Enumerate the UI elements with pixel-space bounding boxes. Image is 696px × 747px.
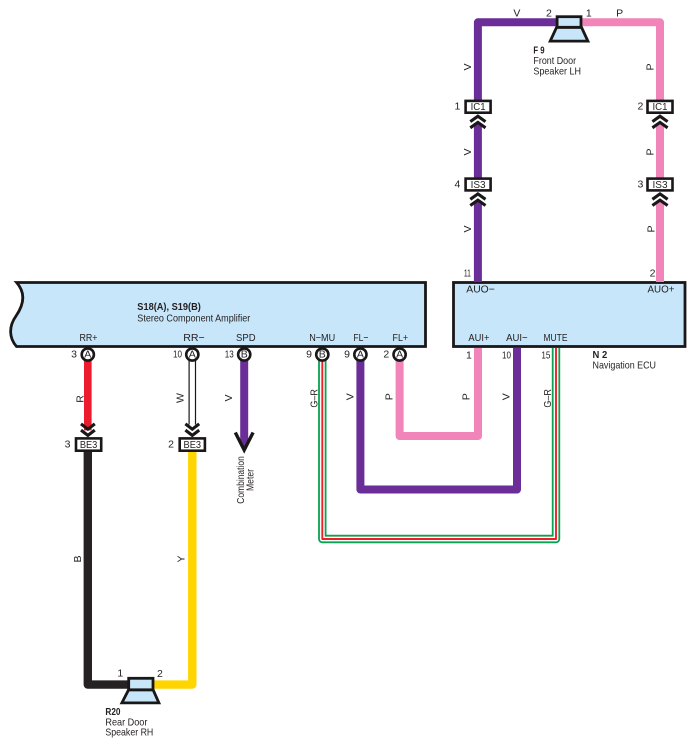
svg-text:9: 9 [344,349,350,361]
wire label P top right column above IC1 [645,63,657,70]
pin 10 circle A on RR- [173,348,198,360]
chevron above BE3 right [185,424,199,436]
svg-text:A: A [357,349,364,361]
wire label G-R on N-MU wire [308,389,320,408]
pin 9 circle A on FL- [344,348,366,360]
svg-text:A: A [84,349,91,361]
speaker R20 Rear Door Speaker RH [122,678,159,703]
svg-text:P: P [645,63,657,70]
svg-text:3: 3 [65,438,71,450]
svg-text:V: V [501,393,513,400]
svg-text:S18(A), S19(B): S18(A), S19(B) [137,301,201,313]
wire label V upper left column [462,148,474,155]
svg-text:IS3: IS3 [471,179,486,191]
wire label P lower right column [646,225,658,232]
label Combination Meter (rotated) [235,456,257,504]
svg-text:2: 2 [637,101,643,113]
wire label P on AUI+ wire [461,393,473,400]
wire label P on FL+ wire [384,393,396,400]
svg-text:1: 1 [466,350,472,362]
svg-text:4: 4 [454,178,460,190]
svg-text:FL+: FL+ [393,332,409,344]
wire P from IS3 to Navigation ECU pin 2 AUO+ [656,201,664,282]
svg-text:10: 10 [502,350,511,362]
svg-text:10: 10 [173,349,182,361]
component N 2 Navigation ECU box [454,283,686,347]
connector IC1 right pin 2 [637,101,672,114]
wire label W [174,393,186,403]
svg-text:Speaker RH: Speaker RH [105,727,153,739]
wire P from amplifier FL+ pin 2 to Navigation ECU AUI+ pin 1 [400,348,478,436]
svg-text:V: V [344,393,356,400]
wire B from BE3 pin 3 to R20 speaker pin 1 [88,451,129,685]
svg-text:G–R: G–R [542,389,554,408]
svg-text:2: 2 [546,8,552,20]
svg-text:B: B [241,349,248,361]
svg-text:IC1: IC1 [653,101,668,113]
svg-text:P: P [616,8,623,20]
svg-text:V: V [462,63,474,70]
chevron below IS3 right [652,194,667,206]
svg-text:A: A [396,349,403,361]
svg-text:2: 2 [168,438,174,450]
wire P between IC1 and IS3 right [656,124,664,179]
wire G-R from amplifier N-MU pin 9 to Navigation ECU MUTE pin 15 [322,348,556,539]
svg-text:3: 3 [637,178,643,190]
svg-text:9: 9 [306,349,312,361]
svg-text:P: P [645,148,657,155]
svg-text:11: 11 [464,268,471,280]
component S18(A),S19(B) Stereo Component Amplifier box [11,283,426,347]
wire label Y [176,555,188,562]
wire label V on SPD wire [223,394,235,401]
svg-text:Meter: Meter [245,469,257,491]
svg-text:3: 3 [71,349,77,361]
svg-text:A: A [189,349,196,361]
svg-text:Stereo Component Amplifier: Stereo Component Amplifier [137,313,250,325]
svg-text:BE3: BE3 [184,439,202,451]
chevron above BE3 left [81,424,95,436]
svg-text:G–R: G–R [308,389,320,408]
wire Y from BE3 pin 2 to R20 speaker pin 2 [153,451,192,685]
chevron below IC1 left [470,116,485,128]
svg-text:B: B [319,349,326,361]
speaker F9 Front Door Speaker LH [550,17,588,41]
wire label P upper right column [645,148,657,155]
svg-text:Navigation ECU: Navigation ECU [593,359,657,371]
svg-text:AUO−: AUO− [466,284,495,296]
wire V from IS3 to Navigation ECU pin 11 AUO- [474,201,482,282]
connector IC1 left pin 1 [454,101,490,114]
wire label V on AUI- wire [501,393,513,400]
svg-text:15: 15 [541,350,550,362]
svg-text:AUI+: AUI+ [468,332,489,344]
svg-text:Y: Y [176,555,188,562]
svg-text:Speaker LH: Speaker LH [533,66,581,78]
svg-text:FL−: FL− [353,332,368,344]
connector IS3 right pin 3 [637,178,672,191]
svg-text:1: 1 [117,668,123,680]
svg-text:2: 2 [157,668,163,680]
wire V from F9 speaker pin 2 to IC1 [478,22,557,100]
svg-text:IS3: IS3 [653,179,668,191]
pin 13 circle B on SPD [225,348,250,360]
svg-text:V: V [462,148,474,155]
pin 2 circle A on FL+ [383,348,405,360]
svg-text:V: V [462,225,474,232]
svg-text:1: 1 [454,101,460,113]
wire P from F9 speaker pin 1 to IC1 right [582,22,661,100]
arrow to Combination Meter [235,433,253,451]
svg-text:P: P [646,225,658,232]
wire V from amplifier SPD pin 13 to Combination Meter arrow [240,360,248,445]
svg-text:BE3: BE3 [80,439,98,451]
wire label V top left column above IC1 [462,63,474,70]
svg-text:MUTE: MUTE [544,332,568,344]
svg-text:R: R [75,395,87,403]
connector IS3 left pin 4 [454,178,490,191]
svg-text:RR−: RR− [183,332,205,344]
wire V from amplifier FL- pin 9 to Navigation ECU AUI- pin 10 [360,348,517,490]
svg-text:P: P [461,393,473,400]
svg-text:B: B [72,555,84,562]
chevron below IC1 right [652,116,667,128]
svg-text:AUO+: AUO+ [648,284,675,296]
connector BE3 right pin 2 [168,438,205,451]
wire label B [72,555,84,562]
svg-text:RR+: RR+ [80,332,98,344]
svg-text:13: 13 [225,349,234,361]
svg-text:AUI−: AUI− [506,332,528,344]
pin 3 circle A on RR+ [71,348,94,360]
svg-text:V: V [513,8,520,20]
svg-text:1: 1 [586,8,592,20]
wire W from amplifier RR- pin 10 to BE3 (white wire) [189,360,197,425]
svg-text:2: 2 [650,268,656,280]
wire label R [75,395,87,403]
svg-text:V: V [223,394,235,401]
wire label G-R on MUTE wire [542,389,554,408]
pin 9 circle B on N-MU [306,348,328,360]
svg-text:W: W [174,393,186,403]
wire label V on FL- wire [344,393,356,400]
svg-text:SPD: SPD [236,332,256,344]
svg-text:P: P [384,393,396,400]
chevron below IS3 left [470,194,485,206]
wire V between IC1 and IS3 left [474,124,482,179]
wire label V lower left column [462,225,474,232]
svg-text:2: 2 [383,349,389,361]
connector BE3 left pin 3 [65,438,102,451]
svg-text:N−MU: N−MU [309,332,335,344]
svg-text:IC1: IC1 [471,101,486,113]
wire R from amplifier RR+ pin 3 to BE3 [84,360,92,430]
